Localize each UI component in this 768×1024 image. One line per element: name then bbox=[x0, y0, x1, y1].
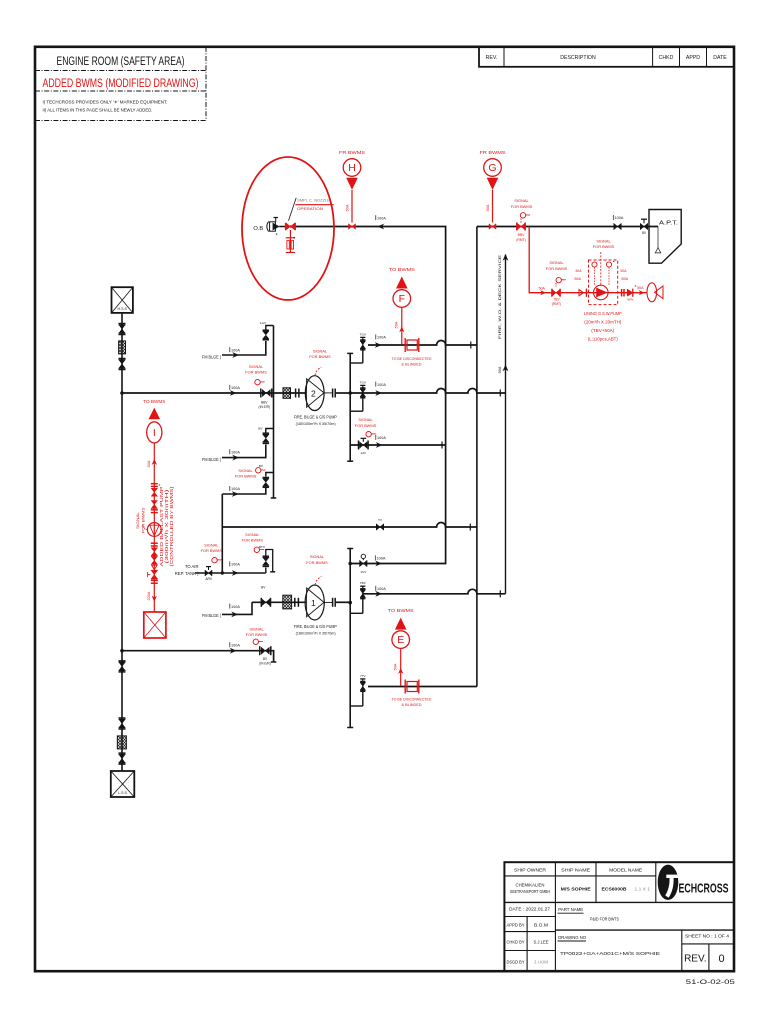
label 100A bbox=[612, 215, 614, 220]
svg-text:100A: 100A bbox=[377, 587, 386, 591]
column link 3 bbox=[266, 473, 274, 477]
label 100A bbox=[375, 435, 377, 440]
valve TV line527 bbox=[376, 524, 384, 531]
svg-text:ADDED BWMS (MODIFIED DRAWING): ADDED BWMS (MODIFIED DRAWING) bbox=[43, 76, 199, 90]
line 593 to fire main bbox=[363, 589, 505, 594]
svg-text:DATE : 2022.01.27: DATE : 2022.01.27 bbox=[509, 907, 550, 912]
svg-text:REV.: REV. bbox=[684, 954, 706, 965]
svg-text:SHIP NAME: SHIP NAME bbox=[561, 868, 590, 873]
red OB valve bbox=[285, 223, 287, 231]
label 100A bbox=[229, 604, 231, 609]
svg-text:FOR BWMS: FOR BWMS bbox=[355, 423, 377, 428]
svg-text:APPD: APPD bbox=[686, 55, 700, 61]
svg-text:FIRE, W.O. & DECK SERVICE: FIRE, W.O. & DECK SERVICE bbox=[497, 254, 502, 339]
svg-text:ECS6000B: ECS6000B bbox=[602, 887, 627, 893]
svg-text:✶: ✶ bbox=[275, 232, 278, 236]
svg-text:TGV: TGV bbox=[360, 380, 367, 384]
svg-text:TO BWMS: TO BWMS bbox=[388, 608, 414, 613]
svg-text:100A: 100A bbox=[231, 643, 240, 647]
svg-text:50A: 50A bbox=[575, 269, 582, 273]
svg-text:SIGNAL: SIGNAL bbox=[358, 417, 373, 422]
svg-text:FOR BWMS: FOR BWMS bbox=[242, 538, 264, 543]
red circle highlight bbox=[242, 157, 334, 300]
sounding pipe bbox=[657, 227, 659, 249]
svg-text:0: 0 bbox=[718, 953, 724, 965]
svg-text:100A: 100A bbox=[377, 216, 386, 220]
svg-text:BBV: BBV bbox=[261, 400, 268, 404]
actuator bbox=[254, 547, 259, 552]
pump2 discharge dot bbox=[348, 601, 352, 605]
svg-text:(CONTROLLED BY BWMS): (CONTROLLED BY BWMS) bbox=[169, 486, 174, 567]
gate valve BV apt bbox=[640, 223, 648, 230]
svg-text:TO BWMS: TO BWMS bbox=[389, 267, 415, 272]
flow arrow bbox=[230, 390, 237, 396]
red OB spool bbox=[289, 230, 291, 253]
pump2 discharge bbox=[324, 601, 332, 603]
svg-text:SIGNAL: SIGNAL bbox=[136, 512, 140, 529]
svg-text:H: H bbox=[348, 162, 356, 174]
reducer bbox=[579, 290, 584, 296]
label 100A bbox=[374, 555, 376, 560]
actuator bbox=[256, 468, 261, 473]
svg-text:SIGNAL: SIGNAL bbox=[310, 554, 325, 559]
rw blge 1 line bbox=[222, 341, 266, 355]
gauge 2 bbox=[606, 262, 611, 267]
svg-text:FOR BWMS: FOR BWMS bbox=[306, 560, 328, 565]
valve 12V bbox=[358, 441, 360, 450]
svg-text:NRV: NRV bbox=[627, 297, 633, 301]
svg-text:ENGINE ROOM (SAFETY AREA): ENGINE ROOM (SAFETY AREA) bbox=[57, 54, 185, 68]
pump2 line bbox=[252, 601, 306, 603]
drain funnel bbox=[647, 283, 657, 302]
line393 right bbox=[350, 389, 505, 394]
svg-text:77V: 77V bbox=[360, 674, 366, 678]
valve ARV bbox=[205, 570, 212, 576]
svg-text:REV.: REV. bbox=[486, 55, 498, 61]
svg-text:DSGD BY: DSGD BY bbox=[507, 960, 525, 965]
line 527 bbox=[222, 523, 477, 528]
red drop E bbox=[400, 648, 402, 686]
svg-text:FOR BWMS: FOR BWMS bbox=[245, 369, 267, 374]
svg-text:BBV: BBV bbox=[518, 233, 526, 237]
gsw right flange bbox=[621, 289, 623, 297]
svg-text:II) ALL ITEMS IN THIS PAGE SHA: II) ALL ITEMS IN THIS PAGE SHALL BE NEWL… bbox=[43, 108, 153, 113]
techcross logo bbox=[658, 865, 679, 900]
dot pump1 discharge bbox=[348, 391, 352, 395]
svg-text:50A: 50A bbox=[395, 321, 399, 328]
column link 2 bbox=[266, 429, 274, 433]
valve col 3 bbox=[263, 477, 270, 479]
svg-text:100A: 100A bbox=[615, 216, 624, 220]
red valve H bbox=[349, 224, 356, 230]
NRV valve bbox=[627, 290, 632, 296]
svg-text:1CV: 1CV bbox=[360, 570, 367, 574]
stub valve TGV a bbox=[360, 336, 365, 338]
sea chest L.S.S bbox=[111, 771, 135, 797]
svg-text:& BLINDED: & BLINDED bbox=[402, 363, 422, 367]
svg-text:APPD BY: APPD BY bbox=[507, 923, 525, 928]
dot bbox=[120, 649, 124, 653]
svg-text:100A: 100A bbox=[231, 348, 240, 352]
label 100A bbox=[229, 449, 231, 454]
svg-text:OPERATION: OPERATION bbox=[297, 206, 323, 211]
bulkhead hatch bbox=[283, 388, 291, 399]
svg-text:LINING G.S.W.PUMP: LINING G.S.W.PUMP bbox=[584, 311, 622, 316]
red valve G bbox=[489, 224, 496, 230]
svg-text:FM BLGE ): FM BLGE ) bbox=[202, 457, 221, 462]
ballast flanges a bbox=[151, 483, 158, 485]
svg-text:/50A: /50A bbox=[574, 277, 582, 281]
ballast pump bbox=[147, 523, 161, 537]
svg-text:FOR BWMS: FOR BWMS bbox=[546, 266, 568, 271]
flow arrow bbox=[376, 442, 383, 448]
label 100A bbox=[229, 486, 231, 491]
svg-text:(180/100m³/h X 35/70m): (180/100m³/h X 35/70m) bbox=[296, 631, 337, 636]
APT tank bbox=[649, 210, 681, 264]
column link bbox=[266, 326, 274, 330]
svg-text:50A: 50A bbox=[637, 286, 644, 290]
ballast flanges c bbox=[151, 579, 158, 581]
label 100A bbox=[375, 586, 377, 591]
svg-text:(IN E/R): (IN E/R) bbox=[259, 405, 271, 409]
blind F bbox=[404, 338, 406, 352]
valve BBV in E/R bbox=[260, 389, 262, 398]
manifold vertical B bbox=[349, 549, 351, 728]
valve apt 1 bbox=[614, 223, 622, 230]
line E blind bbox=[368, 686, 477, 688]
svg-text:B.O.M: B.O.M bbox=[534, 923, 548, 928]
svg-text:50A: 50A bbox=[345, 204, 349, 211]
svg-text:DATE: DATE bbox=[713, 55, 727, 61]
red ballast line bbox=[153, 443, 155, 612]
ballast flanges b bbox=[151, 542, 158, 544]
label 100A bbox=[229, 561, 231, 566]
svg-text:FOR BWMS: FOR BWMS bbox=[141, 507, 145, 534]
svg-text:2: 2 bbox=[311, 388, 316, 398]
red branch to GSW bbox=[529, 227, 647, 293]
callout leader bbox=[289, 198, 297, 221]
svg-text:FM BLGE ): FM BLGE ) bbox=[202, 613, 221, 618]
pump1 bbox=[305, 376, 324, 411]
svg-text:1: 1 bbox=[311, 598, 316, 608]
svg-text:CHEMIKALIEN: CHEMIKALIEN bbox=[516, 883, 545, 888]
svg-text:O.B: O.B bbox=[253, 226, 263, 232]
svg-text:H.S.S: H.S.S bbox=[118, 307, 128, 311]
svg-text:TBV: TBV bbox=[360, 581, 367, 585]
label 100A bbox=[229, 385, 231, 390]
rw blge 2 line bbox=[222, 445, 266, 458]
pump2 bbox=[305, 585, 324, 620]
label 100A bbox=[229, 347, 231, 352]
svg-text:(RMT): (RMT) bbox=[516, 238, 526, 242]
distribution vertical bbox=[273, 326, 275, 499]
line 650 bbox=[122, 651, 274, 662]
svg-text:FR BWMS: FR BWMS bbox=[339, 150, 365, 155]
svg-text:SIGNAL: SIGNAL bbox=[249, 364, 264, 369]
valve BV pump2 bbox=[260, 598, 262, 607]
svg-text:SIGNAL: SIGNAL bbox=[249, 626, 264, 631]
rw blge 3 line bbox=[222, 602, 252, 614]
svg-text:100A: 100A bbox=[231, 605, 240, 609]
tick bbox=[469, 524, 471, 531]
svg-text:TO BE DISCONNECTED: TO BE DISCONNECTED bbox=[392, 697, 432, 701]
svg-text:FOR BWMS: FOR BWMS bbox=[309, 354, 331, 359]
dot bbox=[348, 562, 352, 566]
stub valve TGV b bbox=[360, 384, 365, 386]
flow arrow bbox=[375, 342, 382, 348]
svg-text:SHIP OWNER: SHIP OWNER bbox=[514, 868, 547, 873]
svg-text:(20m³/h X 20mTH): (20m³/h X 20mTH) bbox=[584, 320, 622, 325]
svg-text:ECHCROSS: ECHCROSS bbox=[679, 881, 729, 896]
gsw pump bbox=[594, 285, 609, 300]
svg-text:TO BWMS: TO BWMS bbox=[143, 399, 165, 404]
svg-text:PART NAME: PART NAME bbox=[558, 907, 584, 913]
tick bbox=[441, 442, 443, 449]
gauge 1 bbox=[592, 262, 597, 267]
svg-text:SIGNAL: SIGNAL bbox=[514, 198, 529, 203]
svg-text:100A: 100A bbox=[231, 563, 240, 567]
dot bbox=[221, 571, 224, 574]
sea suction vertical bbox=[121, 313, 123, 771]
gsw dashed box bbox=[589, 260, 618, 305]
svg-text:1GV: 1GV bbox=[260, 321, 267, 325]
stub valve TBV bbox=[360, 585, 365, 587]
svg-text:50A: 50A bbox=[498, 366, 502, 373]
red drop H bbox=[351, 190, 353, 223]
apt line bbox=[477, 226, 658, 228]
svg-text:FR BWMS: FR BWMS bbox=[480, 150, 506, 155]
title block grid bbox=[504, 862, 734, 971]
line 494 bbox=[222, 488, 265, 494]
svg-text:CHKD: CHKD bbox=[659, 55, 674, 61]
svg-text:I: I bbox=[153, 427, 156, 439]
valve col 1 bbox=[263, 329, 270, 331]
svg-text:✶: ✶ bbox=[612, 260, 615, 264]
svg-text:50A: 50A bbox=[394, 663, 398, 670]
apt vertical bbox=[476, 227, 478, 687]
svg-text:MODEL NAME: MODEL NAME bbox=[609, 868, 642, 873]
svg-text:FOR BWMS: FOR BWMS bbox=[593, 244, 615, 249]
svg-text:SIGNAL: SIGNAL bbox=[238, 468, 253, 473]
svg-text:L.S.S: L.S.S bbox=[118, 791, 127, 795]
svg-text:200A: 200A bbox=[147, 591, 151, 600]
svg-text:100A: 100A bbox=[377, 336, 386, 340]
svg-text:S.J.LEE: S.J.LEE bbox=[534, 940, 549, 945]
svg-text:M/S SOPHIE: M/S SOPHIE bbox=[561, 887, 592, 893]
svg-text:51-O-02-05: 51-O-02-05 bbox=[686, 979, 736, 986]
svg-text:100A: 100A bbox=[231, 487, 240, 491]
svg-text:FOR BWMS: FOR BWMS bbox=[235, 473, 257, 478]
sea chest H.S.S bbox=[112, 287, 133, 313]
svg-text:FIRE, BILGE & G/S PUMP: FIRE, BILGE & G/S PUMP bbox=[294, 414, 337, 419]
label 100A bbox=[229, 642, 231, 647]
line 573 bbox=[195, 572, 266, 574]
svg-text:BTV: BTV bbox=[259, 545, 266, 549]
red drop G bbox=[492, 190, 494, 223]
svg-text:DESCRIPTION: DESCRIPTION bbox=[560, 55, 596, 61]
svg-text:TP0022+GA+A001C+M/S SOPHIE: TP0022+GA+A001C+M/S SOPHIE bbox=[560, 951, 660, 956]
svg-text:FIRE, BILGE & G/S PUMP: FIRE, BILGE & G/S PUMP bbox=[294, 624, 337, 629]
ob stub line bbox=[279, 226, 286, 228]
stub valve 77V bbox=[360, 678, 365, 680]
tick bbox=[470, 342, 472, 349]
valve on suction 3 bbox=[119, 660, 126, 662]
svg-text:SIGNAL: SIGNAL bbox=[549, 260, 564, 265]
left manifold vertical bbox=[221, 494, 223, 573]
valve on suction 1 bbox=[119, 323, 126, 325]
svg-text:1.1 X 1: 1.1 X 1 bbox=[635, 887, 651, 893]
pump1 suction flanges bbox=[295, 389, 297, 398]
ballast valve d bbox=[151, 556, 158, 564]
manifold vertical A bbox=[349, 353, 351, 461]
junction dot bbox=[120, 391, 124, 395]
overboard main line bbox=[295, 227, 446, 564]
actuator bbox=[366, 432, 371, 437]
actuator bbox=[253, 639, 258, 644]
strainer 1 bbox=[119, 341, 126, 354]
flow arrow bbox=[230, 648, 237, 654]
line 445 overboard branch bbox=[350, 444, 445, 446]
pump1 discharge bbox=[324, 392, 332, 394]
red sea chest bbox=[144, 612, 166, 638]
pump2 suction flanges bbox=[294, 598, 296, 607]
svg-text:50A: 50A bbox=[539, 286, 546, 290]
svg-text:(IN E/R): (IN E/R) bbox=[259, 662, 271, 666]
ballast valve a bbox=[151, 488, 158, 496]
fire main vertical bbox=[505, 255, 507, 594]
bulkhead hatch 2 bbox=[283, 595, 292, 609]
svg-text:P&ID FOR BWTS: P&ID FOR BWTS bbox=[590, 916, 620, 922]
svg-text:G: G bbox=[488, 162, 496, 174]
svg-text:TO AIR: TO AIR bbox=[185, 564, 199, 569]
svg-text:50A: 50A bbox=[620, 269, 627, 273]
svg-text:(TBV+50A): (TBV+50A) bbox=[591, 328, 615, 333]
label 100A ob bbox=[375, 215, 377, 220]
svg-text:(RMT): (RMT) bbox=[552, 302, 561, 306]
svg-text:SIGNAL: SIGNAL bbox=[245, 532, 260, 537]
line563 valve 1CV bbox=[360, 560, 368, 567]
svg-text:FOR BWMS: FOR BWMS bbox=[511, 204, 533, 209]
svg-text:SEETRANSPORT GMBH: SEETRANSPORT GMBH bbox=[510, 889, 550, 894]
line to blind F bbox=[368, 341, 450, 346]
svg-text:(L:110pcs,ABT): (L:110pcs,ABT) bbox=[588, 337, 619, 342]
svg-text:DRAWING NO: DRAWING NO bbox=[558, 935, 586, 941]
svg-text:100A: 100A bbox=[377, 383, 386, 387]
strainer 2 bbox=[117, 736, 126, 749]
ballast valve e bbox=[151, 570, 158, 579]
svg-text:F: F bbox=[399, 293, 405, 305]
valve on suction 2 bbox=[119, 358, 126, 360]
svg-text:100A: 100A bbox=[377, 557, 386, 561]
svg-text:CHKD BY: CHKD BY bbox=[507, 940, 525, 945]
svg-text:100A: 100A bbox=[377, 436, 386, 440]
svg-text:A.P.T.: A.P.T. bbox=[659, 220, 678, 226]
actuator signal bbox=[255, 380, 260, 385]
svg-text:12V: 12V bbox=[361, 451, 367, 455]
svg-text:SIGNAL: SIGNAL bbox=[204, 542, 219, 547]
svg-text:FOR BWMS: FOR BWMS bbox=[246, 632, 268, 637]
tick bbox=[499, 390, 501, 397]
svg-text:100A: 100A bbox=[231, 450, 240, 454]
flow arrow bbox=[375, 591, 382, 597]
ballast reducer bbox=[152, 565, 157, 569]
revision table bbox=[479, 47, 734, 67]
svg-text:J.I.KIM: J.I.KIM bbox=[534, 960, 548, 965]
svg-text:ARV: ARV bbox=[205, 577, 213, 581]
label 100A bbox=[375, 382, 377, 387]
svg-text:/50A: /50A bbox=[621, 277, 629, 281]
overboard symbol bbox=[267, 222, 269, 232]
red drop F bbox=[401, 307, 403, 344]
valve on suction 5 bbox=[119, 752, 126, 754]
blind E bbox=[404, 680, 406, 694]
column link btv bbox=[266, 550, 273, 572]
valve on suction 4 bbox=[119, 717, 126, 719]
valve BV in E/R bbox=[259, 646, 261, 655]
svg-text:TO BE DISCONNECTED: TO BE DISCONNECTED bbox=[392, 357, 432, 361]
valve col 2 bbox=[263, 432, 270, 434]
svg-text:E: E bbox=[397, 634, 404, 646]
ballast valve c bbox=[151, 548, 158, 556]
flow arrow bbox=[375, 390, 382, 396]
tick bbox=[499, 590, 501, 597]
svg-text:SIGNAL: SIGNAL bbox=[596, 238, 611, 243]
ballast valve b bbox=[151, 501, 158, 509]
valve col BTV bbox=[265, 568, 267, 574]
svg-text:100A: 100A bbox=[231, 386, 240, 390]
svg-text:SMPL C. NOZZLE: SMPL C. NOZZLE bbox=[297, 198, 330, 203]
svg-text:SIGNAL: SIGNAL bbox=[313, 349, 328, 354]
svg-text:TGV: TGV bbox=[360, 332, 367, 336]
svg-text:FOR BWMS: FOR BWMS bbox=[201, 548, 223, 553]
svg-text:I) TECHCROSS PROVIDES ONLY '✶: I) TECHCROSS PROVIDES ONLY '✶' MARKED EQ… bbox=[43, 100, 168, 105]
svg-text:50A: 50A bbox=[147, 460, 151, 467]
actuator bbox=[212, 558, 217, 563]
svg-text:SHEET NO : 1 OF 4: SHEET NO : 1 OF 4 bbox=[685, 934, 730, 939]
pump1 suction line bbox=[122, 392, 306, 394]
title box top-left bbox=[35, 70, 206, 72]
svg-text:(180/100m³/h X 35/70m): (180/100m³/h X 35/70m) bbox=[296, 421, 337, 426]
label 100A bbox=[375, 334, 377, 339]
flow arrow bbox=[375, 561, 382, 567]
svg-text:50A: 50A bbox=[486, 204, 490, 211]
svg-text:& BLINDED: & BLINDED bbox=[402, 703, 422, 707]
svg-text:FM BLGE ): FM BLGE ) bbox=[202, 355, 221, 360]
